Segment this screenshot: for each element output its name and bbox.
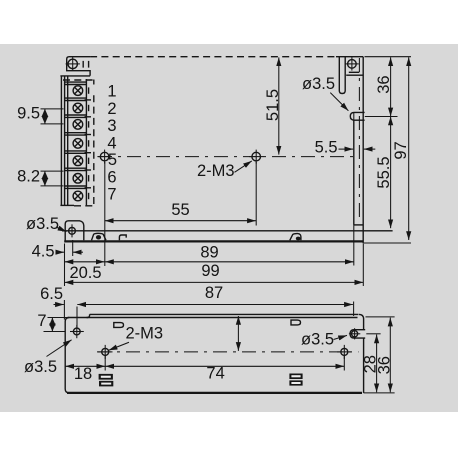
small rectangle mark right xyxy=(291,320,301,325)
dimension 9.5 ticks xyxy=(41,108,64,110)
left ear hole ø3.5 (bottom view) xyxy=(73,328,80,335)
extension line left edge down xyxy=(64,244,66,287)
bottom-left ear hole ø3.5 xyxy=(69,227,76,234)
horizontal center line xyxy=(98,156,356,158)
svg-text:89: 89 xyxy=(200,244,218,262)
body left edge xyxy=(65,318,69,393)
top edge tick right xyxy=(366,316,395,318)
dimension 9.5 arrows xyxy=(44,109,46,124)
terminal separators xyxy=(65,82,87,188)
dimension 20.5 xyxy=(65,261,105,263)
svg-text:5.5: 5.5 xyxy=(315,138,338,156)
svg-text:4.5: 4.5 xyxy=(32,242,55,260)
svg-text:55: 55 xyxy=(171,201,189,219)
dimension 74 xyxy=(105,365,344,367)
dimension 18 xyxy=(65,365,105,367)
right wall center dash-dot line xyxy=(358,58,360,221)
terminal screw 7 xyxy=(73,191,83,201)
terminal screw 4 xyxy=(73,139,83,149)
bottom edge clip tab left xyxy=(119,235,126,240)
M3 hole right (2-M3) xyxy=(252,152,261,161)
left M3 hole (bottom view) xyxy=(102,348,109,355)
top-right ear bottom and = marks xyxy=(349,71,360,73)
top-right ear hole ø3.5 xyxy=(348,60,357,69)
svg-text:6.5: 6.5 xyxy=(40,285,63,303)
bottom edge extension right xyxy=(364,392,395,394)
dimension 51.5 xyxy=(278,57,280,154)
leader arrow 2-M3 bottom xyxy=(109,342,129,350)
flange hole ø3.5 xyxy=(352,331,358,337)
unlabeled double arrow (top edge to center line) xyxy=(237,316,239,351)
right wall inner line extension down to 89 xyxy=(353,225,355,266)
svg-text:55.5: 55.5 xyxy=(375,156,393,188)
bottom right corner line xyxy=(354,224,363,226)
leader arrow 2-M3 xyxy=(235,161,252,172)
terminal screw 3 xyxy=(73,120,83,130)
top edge extension to right dims xyxy=(365,56,412,58)
dimension 36 (bottom) xyxy=(389,318,391,393)
svg-text:ø3.5: ø3.5 xyxy=(26,215,59,233)
small rectangle mark left xyxy=(114,323,124,328)
svg-text:ø3.5: ø3.5 xyxy=(24,358,57,376)
top-right slot xyxy=(339,57,345,94)
top-left ear slot marks xyxy=(82,61,84,68)
svg-text:7: 7 xyxy=(107,186,116,204)
svg-text:36: 36 xyxy=(376,356,394,374)
svg-text:8.2: 8.2 xyxy=(17,167,40,185)
leader arrow ø3.5 top xyxy=(330,93,348,111)
terminal screw 2 xyxy=(73,103,83,113)
svg-text:2-M3: 2-M3 xyxy=(197,162,235,180)
leader arrow ø3.5 bottom-right xyxy=(334,335,348,339)
extension line from left M3 hole down xyxy=(104,162,106,266)
terminal block bottom xyxy=(60,204,74,206)
top view top edge right solid segment xyxy=(336,56,363,58)
terminal cover dashed outline xyxy=(63,79,94,81)
svg-text:20.5: 20.5 xyxy=(69,264,101,282)
svg-text:18: 18 xyxy=(74,365,92,383)
dimension 87 xyxy=(77,304,353,306)
body top upper line xyxy=(90,313,359,315)
right flange boss with hole xyxy=(350,330,365,338)
top-left mounting ear xyxy=(67,57,90,76)
svg-text:5: 5 xyxy=(108,151,117,169)
M3 hole left (2-M3) xyxy=(100,152,109,161)
terminal block outer lines xyxy=(60,75,90,77)
dimension 7 xyxy=(48,317,68,319)
flange hole tick xyxy=(366,333,380,335)
dimension 28 xyxy=(376,335,378,393)
right M3 hole (bottom view) xyxy=(341,348,348,355)
body top step xyxy=(87,314,90,317)
top view body hidden outline (dashed top edge) xyxy=(90,56,336,58)
bottom view center line xyxy=(97,351,359,353)
dimension 55 xyxy=(105,220,256,222)
dimension 89 xyxy=(105,261,354,263)
dimension 36 (top) xyxy=(390,57,392,116)
leader arrow ø3.5 bottom-left xyxy=(56,227,66,232)
top-left ear hole crosshair xyxy=(66,63,80,65)
svg-text:2-M3: 2-M3 xyxy=(126,325,164,343)
svg-text:ø3.5: ø3.5 xyxy=(301,330,334,348)
bottom edge trapezoid tab with hole xyxy=(92,233,107,240)
boss center tick xyxy=(365,116,398,118)
terminal screw 5 xyxy=(73,156,83,166)
bottom-left mounting ear xyxy=(65,221,84,243)
dimension 8.2 arrows xyxy=(44,171,46,186)
bottom inner edge line xyxy=(62,230,393,232)
bottom edge extension to 97 xyxy=(364,242,411,244)
bottom outer edge (thick) xyxy=(64,240,363,242)
body top lower line xyxy=(68,317,358,319)
svg-text:51.5: 51.5 xyxy=(264,89,282,121)
top view right outer edge xyxy=(362,57,364,244)
svg-text:74: 74 xyxy=(206,365,224,383)
leader arrow ø3.5 bottom-left view xyxy=(47,340,72,357)
dimension 97 xyxy=(408,57,410,240)
svg-text:6: 6 xyxy=(107,168,116,186)
dimension 99 xyxy=(65,281,364,283)
terminal screw 1 xyxy=(73,86,83,96)
svg-text:97: 97 xyxy=(392,141,410,159)
svg-text:7: 7 xyxy=(37,312,46,330)
dimension 8.2 ticks xyxy=(41,170,64,172)
right side mounting boss with hole xyxy=(350,112,364,120)
vent slot marks left xyxy=(99,374,113,380)
terminal screw 6 xyxy=(73,174,83,184)
body right edge with top corner xyxy=(359,314,364,393)
svg-text:9.5: 9.5 xyxy=(17,105,40,123)
vent slot marks right xyxy=(289,374,302,380)
body bottom edge (thick) xyxy=(67,392,362,394)
svg-text:87: 87 xyxy=(205,284,223,302)
svg-text:99: 99 xyxy=(201,262,219,280)
right edge extension down to 99 xyxy=(362,244,364,287)
extension line from right M3 hole down xyxy=(255,162,257,226)
svg-text:4: 4 xyxy=(107,135,116,153)
top-left ear hole ø3.5 xyxy=(68,59,77,68)
bottom edge clip tab right (mirrored) xyxy=(290,234,301,241)
terminal clamp marks xyxy=(85,100,92,188)
right wall inner line xyxy=(353,120,355,225)
svg-text:2: 2 xyxy=(107,100,116,118)
svg-text:36: 36 xyxy=(375,75,393,93)
svg-text:1: 1 xyxy=(107,83,116,101)
svg-text:ø3.5: ø3.5 xyxy=(302,75,335,93)
dimension 55.5 xyxy=(390,117,392,229)
svg-text:3: 3 xyxy=(107,117,116,135)
